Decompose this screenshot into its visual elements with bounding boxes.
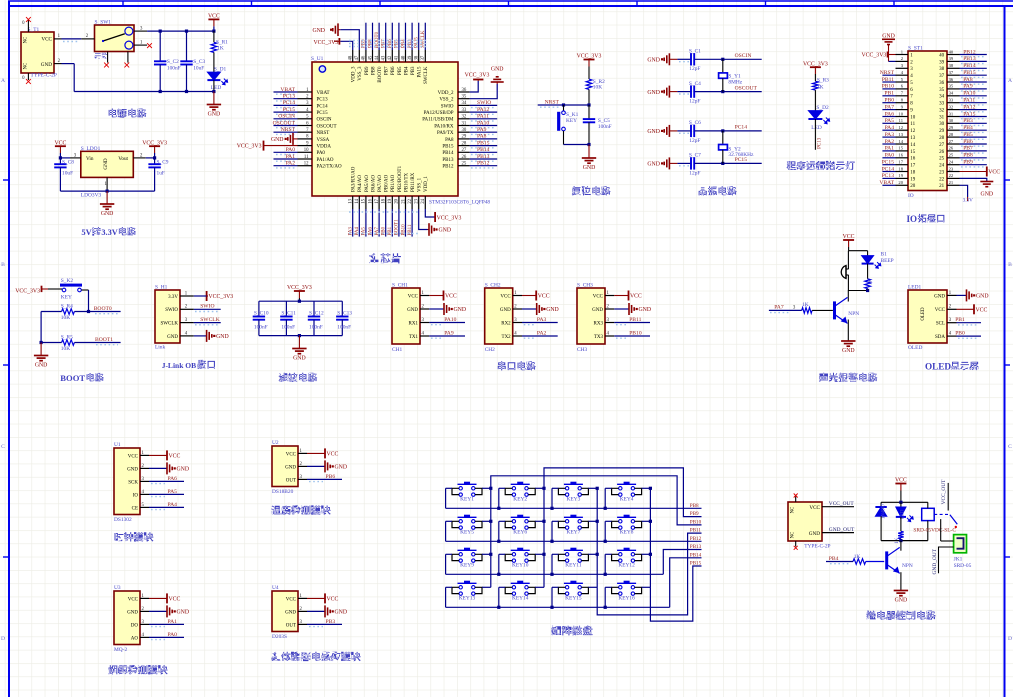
power port VCC ST1 pin23 bbox=[986, 167, 988, 177]
svg-text:40: 40 bbox=[401, 55, 406, 60]
svg-text:35: 35 bbox=[949, 84, 954, 89]
power port GND bbox=[966, 289, 968, 301]
pin ST1.16 bbox=[896, 157, 909, 159]
svg-text:44: 44 bbox=[375, 55, 380, 60]
wire power block bottom rail bbox=[74, 91, 214, 93]
power port GND at VSS_2 bbox=[496, 82, 498, 84]
svg-text:GND: GND bbox=[271, 137, 284, 143]
pin U1.8 VSSA bbox=[298, 138, 313, 140]
svg-text:VCC: VCC bbox=[327, 596, 339, 602]
junction NRST-key bbox=[562, 103, 565, 106]
IC S_U1 STM32F103C8T6_LQFP48 body bbox=[312, 62, 458, 196]
svg-text:KEY7: KEY7 bbox=[567, 530, 581, 536]
svg-text:DS18B20: DS18B20 bbox=[272, 489, 294, 495]
svg-text:PB14: PB14 bbox=[442, 151, 454, 156]
svg-text:PB11/RX: PB11/RX bbox=[411, 172, 416, 192]
svg-text:PA12: PA12 bbox=[963, 104, 975, 110]
power port GND bbox=[298, 336, 300, 349]
svg-text:VCC_3V3: VCC_3V3 bbox=[437, 215, 462, 221]
wire row4 route to PB14 bbox=[670, 558, 702, 608]
pin U3.2 GND bbox=[140, 610, 149, 612]
svg-text:KEY16: KEY16 bbox=[618, 596, 635, 602]
pin U1.1 VBAT bbox=[298, 91, 313, 93]
svg-text:PA7: PA7 bbox=[774, 305, 784, 311]
wire JK1 pin2 GND_OUT bbox=[939, 547, 954, 573]
svg-text:VCC: VCC bbox=[169, 596, 181, 602]
svg-text:PB4: PB4 bbox=[829, 556, 839, 562]
svg-text:PB13: PB13 bbox=[477, 154, 490, 160]
svg-text:KEY4: KEY4 bbox=[620, 497, 634, 503]
svg-text:S_H1: S_H1 bbox=[155, 284, 168, 290]
svg-text:GND: GND bbox=[335, 465, 348, 471]
key KEY7 bbox=[564, 516, 583, 518]
wire/net PA0 (ST1 left) bbox=[882, 157, 895, 159]
power port VCC bbox=[208, 18, 219, 20]
buzzer B1 BEEP bbox=[841, 266, 846, 279]
wire/net PB0 (bottom) bbox=[385, 209, 387, 237]
svg-text:PB11: PB11 bbox=[629, 317, 641, 323]
connector JK1 SRD-05 bbox=[954, 535, 967, 553]
wire key3 left drop bbox=[551, 488, 553, 508]
pin ST1.27 bbox=[947, 143, 960, 145]
wire key16 left drop bbox=[604, 587, 606, 607]
svg-text:VCC: VCC bbox=[630, 294, 642, 300]
svg-text:VCC: VCC bbox=[327, 451, 339, 457]
svg-text:CH3: CH3 bbox=[577, 347, 587, 353]
svg-text:TX1: TX1 bbox=[409, 335, 419, 340]
svg-text:VCC: VCC bbox=[54, 140, 66, 146]
pin S_CH1.3 RX1 bbox=[420, 322, 429, 324]
svg-text:VCC: VCC bbox=[208, 14, 220, 20]
wire/net PB6 (U2) bbox=[307, 478, 342, 480]
pin S_CH2.2 GND bbox=[513, 308, 522, 310]
pin U1.39 PB3 bbox=[411, 50, 413, 62]
svg-text:17: 17 bbox=[910, 164, 916, 169]
pin relay typec bottom no-connect bbox=[795, 541, 797, 547]
pin U3.4 AO bbox=[140, 636, 149, 638]
svg-text:39: 39 bbox=[408, 55, 413, 60]
svg-text:GND: GND bbox=[312, 28, 325, 34]
pin S_T1.0 top no-connect bbox=[27, 20, 29, 32]
svg-text:100nF: 100nF bbox=[281, 325, 295, 331]
wire/net PB5 (ST1 right) bbox=[960, 136, 987, 138]
svg-text:10uF: 10uF bbox=[62, 171, 73, 177]
pin U1.10 PA0 bbox=[298, 151, 313, 153]
svg-text:OSCIN: OSCIN bbox=[278, 114, 295, 120]
svg-text:VBAT: VBAT bbox=[879, 180, 894, 186]
wire/net PA9 (ST1 right) bbox=[960, 88, 987, 90]
svg-text:GND: GND bbox=[127, 467, 138, 472]
svg-text:U2: U2 bbox=[272, 440, 279, 446]
pin U1.34 SWIO bbox=[458, 104, 470, 106]
svg-text:22: 22 bbox=[939, 177, 945, 182]
svg-text:39: 39 bbox=[939, 60, 945, 65]
svg-text:31: 31 bbox=[939, 115, 945, 120]
svg-text:PA9: PA9 bbox=[477, 127, 487, 133]
wire key7 right join bbox=[588, 520, 597, 522]
svg-text:31: 31 bbox=[949, 111, 954, 116]
power port VCC S_CH1 bbox=[429, 295, 443, 297]
pin U1.35 VSS_2 bbox=[458, 98, 470, 100]
key KEY3 bbox=[564, 483, 583, 485]
pin U1.6 OSCOUT bbox=[298, 125, 313, 127]
svg-text:PA9: PA9 bbox=[963, 84, 973, 90]
svg-text:GND: GND bbox=[592, 308, 603, 313]
wire/net PB4 (ST1 right) bbox=[960, 129, 987, 131]
connector S_ST1 IO header body bbox=[908, 51, 947, 191]
svg-text:PA2/TX/AO: PA2/TX/AO bbox=[317, 165, 342, 170]
svg-text:OUT: OUT bbox=[286, 623, 296, 628]
svg-text:VCC_3V3: VCC_3V3 bbox=[803, 61, 828, 67]
pin ST1.10 bbox=[896, 116, 909, 118]
pin ST1.35 bbox=[947, 88, 960, 90]
svg-text:KEY6: KEY6 bbox=[513, 530, 527, 536]
svg-text:38: 38 bbox=[939, 67, 945, 72]
svg-text:S_SW1: S_SW1 bbox=[95, 20, 112, 26]
svg-text:PA0: PA0 bbox=[168, 632, 178, 638]
power port GND bbox=[324, 460, 326, 472]
pin U1.4 PC15 bbox=[298, 111, 313, 113]
svg-text:VCC: VCC bbox=[286, 452, 297, 457]
wire OSCOUT row bbox=[695, 91, 762, 93]
wire/net PA1 (U3) bbox=[149, 623, 184, 625]
pin LDO1.1 GND bbox=[106, 177, 108, 191]
wire/net NRST bbox=[274, 131, 298, 133]
wire/net PB9 (top) bbox=[365, 23, 367, 50]
wire U1 VSS_2 to GND bbox=[470, 84, 498, 99]
svg-text:GND: GND bbox=[103, 158, 109, 169]
svg-text:NRST: NRST bbox=[545, 100, 560, 106]
pin U1.1 VCC bbox=[140, 454, 149, 456]
svg-text:VCC: VCC bbox=[445, 294, 457, 300]
svg-text:B: B bbox=[1008, 262, 1012, 268]
pin U1.40 PB4 bbox=[405, 50, 407, 62]
svg-text:MQ-2: MQ-2 bbox=[114, 647, 127, 653]
wire/net PA12 (ST1 right) bbox=[960, 109, 987, 111]
power port VCC oled bbox=[957, 308, 975, 310]
power port VCC bbox=[55, 145, 66, 147]
svg-text:PA3/RX/AO: PA3/RX/AO bbox=[352, 166, 357, 192]
snap marks near bottom labels bbox=[349, 211, 420, 213]
svg-text:30: 30 bbox=[939, 122, 945, 127]
capacitor S_C5 100nF bbox=[588, 105, 590, 119]
svg-text:PB12: PB12 bbox=[477, 161, 490, 167]
svg-text:PB4: PB4 bbox=[963, 125, 973, 131]
svg-text:SRD-05VDC-SL-C: SRD-05VDC-SL-C bbox=[913, 527, 956, 533]
pin U1.30 PA9/TX bbox=[458, 131, 470, 133]
svg-text:PA9/TX: PA9/TX bbox=[437, 131, 454, 136]
svg-text:KEY10: KEY10 bbox=[512, 563, 529, 569]
svg-text:5V: 5V bbox=[81, 227, 92, 237]
svg-text:PA5/AO: PA5/AO bbox=[365, 175, 370, 192]
svg-text:21: 21 bbox=[939, 184, 945, 189]
wire/net PA2 (ST1 left) bbox=[882, 143, 895, 145]
pin U1.47 VSS_3 bbox=[358, 50, 360, 62]
pin U1.18 PB0/AO bbox=[385, 196, 387, 209]
wire key6 right join bbox=[535, 520, 544, 522]
wire/net PB10 (bottom) bbox=[405, 209, 407, 237]
svg-text:29: 29 bbox=[462, 135, 467, 140]
pin U3.1 VCC bbox=[140, 597, 149, 599]
svg-text:BOOT1: BOOT1 bbox=[95, 337, 113, 343]
svg-text:30: 30 bbox=[462, 128, 467, 133]
svg-text:12pF: 12pF bbox=[689, 66, 700, 72]
svg-text:KEY: KEY bbox=[566, 118, 577, 124]
svg-text:GND: GND bbox=[647, 162, 660, 168]
svg-text:BEEP: BEEP bbox=[881, 258, 894, 264]
wire key10 left drop bbox=[498, 554, 500, 574]
pin U1.41 PB5 bbox=[398, 50, 400, 62]
pin ST1.30 bbox=[947, 122, 960, 124]
wire/net PA9 bbox=[429, 335, 465, 337]
svg-text:NC: NC bbox=[791, 507, 796, 514]
sheet frame right bbox=[1004, 6, 1006, 697]
svg-text:KEY8: KEY8 bbox=[620, 530, 634, 536]
svg-text:GND: GND bbox=[500, 308, 511, 313]
svg-text:S_R3: S_R3 bbox=[817, 78, 829, 84]
svg-text:38: 38 bbox=[949, 63, 954, 68]
svg-text:37: 37 bbox=[421, 55, 426, 60]
svg-text:KEY15: KEY15 bbox=[565, 596, 582, 602]
svg-text:GND: GND bbox=[177, 610, 190, 616]
capacitor S_C11 100nF bbox=[285, 301, 287, 316]
caption 复位电路 bbox=[572, 186, 581, 195]
svg-text:GND: GND bbox=[981, 192, 994, 198]
pin LED1.3 SCL bbox=[947, 322, 957, 324]
caption 串口电路 bbox=[498, 361, 506, 370]
wire/net PB13 (ST1 right) bbox=[960, 60, 987, 62]
svg-text:PB3: PB3 bbox=[411, 66, 416, 75]
capacitor S_C4 12pF bbox=[677, 91, 691, 93]
pin S_CH3.2 GND bbox=[605, 308, 614, 310]
pin S_CH3.3 RX3 bbox=[605, 322, 614, 324]
wire/net PB11 (ST1 left) bbox=[882, 81, 895, 83]
power port GND bbox=[292, 133, 294, 145]
svg-text:S_C8: S_C8 bbox=[62, 159, 74, 165]
pin U1.43 PB7 bbox=[385, 50, 387, 62]
wire key7 left drop bbox=[551, 521, 553, 541]
svg-text:PB1/AO: PB1/AO bbox=[391, 174, 396, 192]
key KEY15 bbox=[564, 582, 583, 584]
wire/net PA6 (U1) bbox=[149, 480, 184, 482]
svg-text:VCC_3V3: VCC_3V3 bbox=[15, 289, 40, 295]
svg-text:100nF: 100nF bbox=[337, 325, 351, 331]
svg-text:C: C bbox=[1008, 444, 1012, 450]
power port VCC U4 bbox=[307, 597, 325, 599]
wire/net OSCIN bbox=[274, 118, 298, 120]
svg-text:VCC_3V3: VCC_3V3 bbox=[237, 144, 262, 150]
wire key13 right join bbox=[482, 586, 491, 588]
wire PC15 row bbox=[695, 162, 762, 164]
key S_K1 KEY bbox=[563, 105, 565, 111]
svg-text:VCC: VCC bbox=[988, 170, 1000, 176]
svg-text:PA4: PA4 bbox=[168, 502, 178, 508]
svg-text:OSCIN: OSCIN bbox=[317, 118, 332, 123]
svg-text:NC: NC bbox=[24, 37, 29, 44]
caption 程序运行指示灯 bbox=[787, 161, 796, 170]
svg-text:26: 26 bbox=[462, 155, 467, 160]
capacitor S_C2 100nF bbox=[159, 31, 161, 61]
pin relay typec top no-connect bbox=[795, 497, 797, 503]
power port VCC U3 bbox=[149, 597, 167, 599]
svg-text:OSCOUT: OSCOUT bbox=[735, 85, 758, 91]
wire/net PB15 bbox=[470, 145, 498, 147]
svg-text:IO: IO bbox=[907, 214, 918, 224]
wire key column 3 bus bbox=[596, 488, 598, 587]
pin U1.12 PA2/TX/AO bbox=[298, 165, 313, 167]
svg-text:12pF: 12pF bbox=[689, 99, 700, 105]
svg-text:VCC: VCC bbox=[500, 294, 511, 299]
pin ST1.13 bbox=[896, 136, 909, 138]
key KEY9 bbox=[458, 549, 477, 551]
key KEY8 bbox=[617, 516, 636, 518]
svg-text:1K: 1K bbox=[802, 302, 809, 308]
svg-text:27: 27 bbox=[949, 139, 954, 144]
wire/net PA15 (top) bbox=[418, 23, 420, 50]
svg-text:13: 13 bbox=[349, 198, 354, 203]
svg-text:PA1: PA1 bbox=[168, 619, 178, 625]
wire key9 left drop bbox=[445, 554, 447, 574]
svg-text:18: 18 bbox=[898, 166, 903, 171]
capacitor S_C7 12pF bbox=[677, 162, 691, 164]
pin U1.31 PA10/RX bbox=[458, 125, 470, 127]
svg-text:OLED: OLED bbox=[921, 307, 926, 321]
junction LED bottom bbox=[212, 90, 215, 93]
svg-text:23: 23 bbox=[415, 198, 420, 203]
caption 继电器控制电路 bbox=[866, 610, 876, 619]
svg-text:PB14: PB14 bbox=[690, 552, 702, 558]
wire key column 4 bus bbox=[649, 488, 651, 587]
pin U1.15 PA5/AO bbox=[365, 196, 367, 209]
svg-text:28: 28 bbox=[939, 136, 945, 141]
pin U1.20 PB2/BOOT1 bbox=[398, 196, 400, 209]
capacitor S_C10 100nF bbox=[258, 301, 260, 316]
pin H1.1 3.3V bbox=[180, 295, 194, 297]
svg-text:GND: GND bbox=[809, 531, 820, 537]
connector S_CH2 body bbox=[485, 288, 513, 344]
svg-text:PA1: PA1 bbox=[885, 146, 895, 152]
wire/net PC15 bbox=[274, 111, 298, 113]
svg-text:17: 17 bbox=[898, 160, 903, 165]
wire/net VCC_OUT bbox=[822, 506, 854, 508]
svg-text:VCC_OUT: VCC_OUT bbox=[829, 501, 855, 507]
svg-text:PA4/AO: PA4/AO bbox=[358, 175, 363, 192]
svg-text:PA5: PA5 bbox=[885, 118, 895, 124]
wire/net PA10 bbox=[429, 322, 465, 324]
pin U1.22 PB11/RX bbox=[411, 196, 413, 209]
caption 主芯片 bbox=[369, 253, 378, 263]
pin ST1.39 bbox=[947, 60, 960, 62]
svg-text:KEY13: KEY13 bbox=[459, 596, 476, 602]
resistor S_R2 10K bbox=[586, 79, 592, 89]
pin ST1.11 bbox=[896, 122, 909, 124]
svg-text:GND_OUT: GND_OUT bbox=[932, 548, 938, 574]
pin U3.3 DO bbox=[140, 623, 149, 625]
svg-text:24: 24 bbox=[421, 198, 426, 203]
wire LED to PC13 bbox=[814, 119, 816, 150]
power port GND S_C4 bbox=[668, 86, 670, 98]
svg-text:GND: GND bbox=[127, 610, 138, 615]
svg-text:PB0/AO: PB0/AO bbox=[385, 174, 390, 192]
pin ST1.26 bbox=[947, 150, 960, 152]
svg-text:PA10: PA10 bbox=[963, 91, 975, 97]
wire/net PA1 bbox=[274, 158, 298, 160]
svg-text:VBAT: VBAT bbox=[280, 87, 295, 93]
power port GND U3 bbox=[149, 610, 167, 612]
pin ST1.15 bbox=[896, 150, 909, 152]
junction C2 bottom bbox=[159, 90, 162, 93]
pin S_SW1.2 bbox=[81, 38, 94, 40]
svg-text:D: D bbox=[1, 636, 5, 642]
svg-text:PB3: PB3 bbox=[326, 619, 336, 625]
svg-text:PA9: PA9 bbox=[444, 330, 454, 336]
wire key12 left drop bbox=[604, 554, 606, 574]
svg-text:PA1: PA1 bbox=[286, 154, 296, 160]
pin ST1.33 bbox=[947, 102, 960, 104]
svg-text:GND: GND bbox=[491, 67, 504, 73]
pin ST1.20 bbox=[896, 184, 909, 186]
junction NRST-rail bbox=[587, 103, 590, 106]
svg-text:PA3: PA3 bbox=[537, 317, 547, 323]
wire/net PA4 (bottom) bbox=[358, 209, 360, 237]
svg-text:PB15: PB15 bbox=[963, 70, 976, 76]
wire/net PA0 bbox=[274, 151, 298, 153]
junction at C3 top bbox=[185, 30, 188, 33]
svg-text:KEY: KEY bbox=[61, 295, 72, 301]
svg-text:PB9: PB9 bbox=[963, 160, 973, 166]
svg-text:10: 10 bbox=[898, 111, 903, 116]
wire VCC to Vin bbox=[60, 157, 70, 159]
svg-text:PA0: PA0 bbox=[286, 147, 296, 153]
svg-text:PB1: PB1 bbox=[955, 317, 965, 323]
power port VCC_3V3 boot bbox=[41, 286, 43, 292]
svg-text:VCC: VCC bbox=[128, 597, 139, 602]
wire key1 right join bbox=[482, 487, 491, 489]
pin S_CH2.1 VCC bbox=[513, 295, 522, 297]
wire key4 left drop bbox=[604, 488, 606, 508]
svg-text:11: 11 bbox=[910, 122, 915, 127]
wire key to BOOT0 bbox=[88, 290, 90, 312]
wire/net SWCLK (top) bbox=[424, 23, 426, 50]
svg-text:43: 43 bbox=[382, 55, 387, 60]
power port VCC_3V3 at VDD_3 bbox=[338, 38, 340, 45]
svg-text:GND: GND bbox=[976, 294, 989, 300]
pin LED1.4 SDA bbox=[947, 335, 957, 337]
svg-text:BOOT0: BOOT0 bbox=[378, 66, 383, 83]
svg-text:PA8: PA8 bbox=[963, 77, 973, 83]
svg-text:GND: GND bbox=[335, 610, 348, 616]
wire col4 bottom route to PB15 bbox=[650, 566, 701, 621]
pin ST1.14 bbox=[896, 143, 909, 145]
svg-text:TX3: TX3 bbox=[594, 335, 604, 340]
power port GND bbox=[166, 605, 168, 617]
sheet frame top bbox=[8, 5, 1013, 7]
relay contact dashed link bbox=[934, 513, 950, 515]
wire BOOT0 net bbox=[74, 311, 120, 313]
svg-text:PB15: PB15 bbox=[690, 561, 702, 567]
svg-text:S_K1: S_K1 bbox=[566, 112, 579, 118]
svg-text:S_K2: S_K2 bbox=[61, 278, 74, 284]
svg-text:PB15: PB15 bbox=[477, 140, 490, 146]
pin ST1.34 bbox=[947, 95, 960, 97]
pin U1.2 PC13 bbox=[298, 98, 313, 100]
pin U1.44 BOOT0 bbox=[378, 50, 380, 62]
svg-text:1K: 1K bbox=[869, 279, 874, 286]
wire/net PC14 (ST1 left) bbox=[882, 171, 895, 173]
svg-text:VDDA: VDDA bbox=[317, 145, 332, 150]
svg-text:OSCIN: OSCIN bbox=[735, 53, 752, 59]
svg-text:40: 40 bbox=[939, 53, 945, 58]
